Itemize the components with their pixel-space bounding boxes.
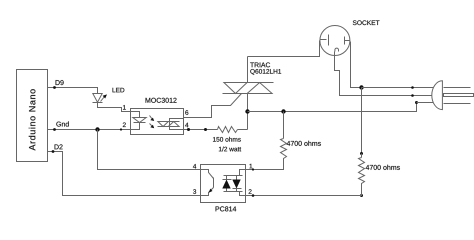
junction on hot wire	[411, 86, 414, 89]
wire R3 to PC814 pin2	[246, 186, 362, 196]
resistor R3 4700 ohms	[359, 154, 400, 186]
pin label 2 (MOC)	[123, 122, 126, 127]
wire R1 to triac MT1	[238, 129, 248, 131]
junction on ground wire	[411, 94, 414, 97]
junction hot node	[359, 85, 363, 89]
pin label 1 (PC814)	[249, 164, 252, 168]
wire hot node to plug prong1	[362, 87, 434, 89]
junction pin D9	[53, 86, 56, 89]
wire MT2 to socket left terminal	[248, 41, 320, 57]
resistor R1 150 ohms	[213, 127, 241, 152]
LED D1	[93, 88, 125, 103]
wire socket right slot to hot line	[351, 42, 362, 88]
pin label 4 (PC814)	[193, 164, 196, 168]
wire MOC pin6 to triac gate	[184, 94, 242, 118]
Arduino Nano U1	[17, 70, 48, 162]
wire Gnd to MOC3012 pin2	[48, 129, 131, 131]
wire socket ground pin to plug prong2	[335, 52, 432, 96]
junction R2 top	[281, 109, 285, 113]
wire D2 to PC814 pin3	[48, 152, 201, 196]
socket J1	[320, 20, 380, 55]
back-to-back LEDs inside PC814	[222, 170, 245, 196]
junction triac MT1 node	[245, 109, 249, 113]
pin label 2 (PC814)	[249, 189, 252, 194]
wire LED cathode to MOC3012 pin1	[98, 103, 131, 112]
wire neutral stub to plug	[417, 102, 434, 104]
junction Gnd branch	[95, 127, 99, 131]
phototransistor inside PC814	[201, 170, 214, 196]
junction on pin4 wire a	[187, 128, 190, 131]
pin label 4 (MOC)	[185, 123, 188, 127]
optocoupler U3 PC814	[201, 165, 246, 212]
junction pin D2	[52, 150, 55, 153]
pin label 1 (MOC)	[123, 105, 126, 109]
transistor Q1 TRIAC Q6012LH1	[223, 57, 282, 130]
wire MT1 node to plug neutral	[248, 103, 417, 112]
wire hot node down to R3	[361, 88, 363, 154]
diode inside MOC3012	[131, 112, 147, 130]
junction pin2 PC814	[252, 194, 255, 197]
junction R3 top	[360, 152, 363, 155]
junction pin Gnd	[53, 128, 56, 131]
resistor R2 4700 ohms	[281, 112, 321, 162]
plug P1	[432, 81, 474, 110]
node D2	[55, 144, 63, 149]
wire Gnd branch down to PC814 pin4	[98, 130, 201, 170]
pin label 3 (PC814)	[193, 189, 196, 194]
pin label 6 (MOC)	[185, 110, 188, 115]
node D9	[56, 80, 64, 85]
triac inside MOC3012	[158, 119, 184, 130]
junction plug neutral stub	[415, 101, 418, 104]
optocoupler U2 MOC3012	[131, 98, 184, 135]
junction pin1 PC814	[252, 168, 254, 170]
wire D9 pin to LED anode	[48, 88, 98, 94]
node Gnd	[56, 121, 68, 126]
junction on pin4 wire b	[204, 128, 207, 131]
wire R2 to PC814 pin1	[246, 162, 284, 170]
light arrows inside MOC3012	[150, 116, 155, 129]
junction small on Gnd wire	[120, 128, 122, 130]
junction R3 bottom	[360, 194, 363, 197]
wire MOC pin4 to resistor R1	[184, 129, 218, 131]
